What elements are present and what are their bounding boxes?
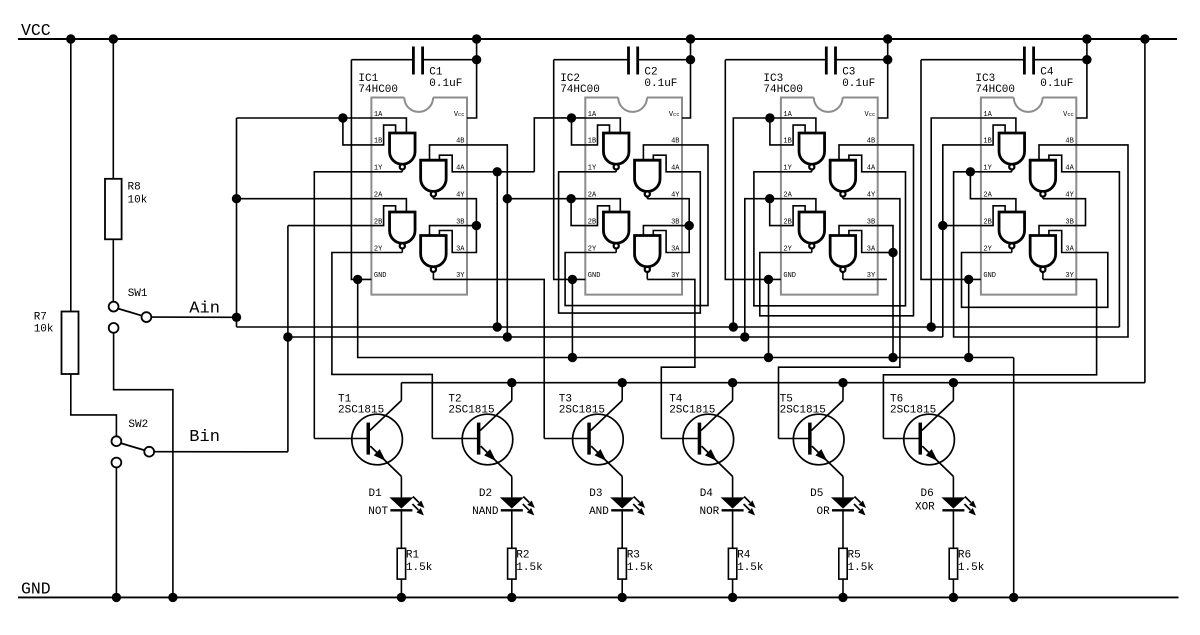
wire Ain riser to IC1 pin 2A (237, 198, 372, 200)
junction IC3(4) GND pin (964, 275, 973, 284)
junction IC2 1A/1B (567, 113, 576, 122)
pin labels IC2 left side 1A 1B 1Y 2A 2B 2Y GND (588, 111, 601, 280)
label IC2 74HC00 (560, 73, 600, 96)
svg-text:C4: C4 (1040, 67, 1054, 79)
wire IC3 1Y to IC3 pin 4A (under IC) (754, 172, 906, 306)
switch SW2 (112, 436, 155, 467)
junction IC3 GND pin (764, 275, 773, 284)
wire T2 base feed (432, 438, 478, 440)
svg-text:VCC: VCC (21, 21, 51, 40)
resistor R3 1.5k (618, 548, 626, 579)
LED D3 (610, 497, 645, 516)
wire IC3(4) pin 2B stub (943, 225, 981, 227)
svg-text:1.5k: 1.5k (627, 562, 654, 574)
svg-text:74HC00: 74HC00 (560, 84, 600, 96)
wire IC3 1A tie to 1B (770, 118, 781, 145)
NAND gate IC1 G3 (pins 3B,3A -> 3Y) (421, 226, 467, 280)
transistor T6 2SC1815 (904, 383, 955, 477)
svg-text:D3: D3 (589, 488, 602, 500)
junction IC3(4) 1Y/2A (966, 167, 975, 176)
svg-text:NOR: NOR (699, 506, 719, 518)
junction Ain bus/IC3 (729, 322, 738, 331)
wire SW1 lower throw to GND (114, 333, 173, 597)
wire R8 bottom to SW1 pivot (112, 239, 114, 301)
svg-text:D6: D6 (921, 488, 934, 500)
wire T5 emitter to LED D5 (842, 476, 844, 497)
pin labels IC1 left side 1A 1B 1Y 2A 2B 2Y GND (374, 111, 387, 280)
junction C3/Vcc pin (883, 55, 892, 64)
wire R2 to GND rail (511, 579, 513, 597)
wire VCC to R7 top (70, 39, 72, 312)
junction VCC/R7 (66, 34, 75, 43)
junction IC3(4) 1B/2B (938, 221, 947, 230)
label C4 0.1uF (1040, 67, 1073, 90)
wire R5 to GND rail (842, 579, 844, 597)
junction GND/R6 (949, 593, 958, 602)
transistor T2 2SC1815 (462, 383, 513, 477)
GND power rail (18, 596, 1179, 598)
junction GND/R1 (397, 593, 406, 602)
resistor R5 1.5k (839, 548, 847, 579)
IC IC3 74HC00 body (unit 3) (781, 98, 878, 295)
wire IC3 GND pin riser to GND bus (768, 279, 770, 357)
NAND gate IC2 G4 (pins 4B,4A -> 4Y) (635, 145, 682, 199)
resistor R4 1.5k (728, 548, 736, 579)
VCC power rail (18, 38, 1177, 40)
wire Ain to IC1 pin 1A (237, 117, 372, 119)
svg-text:Vcc: Vcc (865, 111, 876, 119)
junction IC2 4Y/3B (685, 221, 694, 230)
NAND gate IC3 G4 (pins 4B,4A -> 4Y) (830, 145, 878, 199)
svg-text:IC2: IC2 (560, 73, 580, 85)
svg-text:1.5k: 1.5k (406, 562, 433, 574)
svg-text:T6: T6 (890, 393, 903, 405)
svg-text:1.5k: 1.5k (737, 562, 764, 574)
wire VCC to C1/Vcc pin riser (467, 39, 477, 118)
junction GND bus/IC3 (764, 353, 773, 362)
svg-text:10k: 10k (128, 195, 148, 207)
wire IC3 3Y stub (878, 278, 887, 280)
wire T1 emitter to LED D1 (400, 476, 402, 497)
svg-text:Vcc: Vcc (1063, 111, 1074, 119)
svg-text:2SC1815: 2SC1815 (448, 405, 494, 417)
svg-text:T5: T5 (780, 393, 793, 405)
wire IC1 pin 4B to Bin bus (467, 145, 507, 337)
wire R6 to GND rail (952, 579, 954, 597)
wire IC3(4) GND pin riser to GND bus (968, 279, 970, 357)
resistor R6 1.5k (949, 548, 957, 579)
svg-text:R6: R6 (958, 550, 971, 562)
wire VCC to C4/Vcc pin riser (1076, 39, 1087, 118)
wire Bin branch to IC2 pin 2A (507, 198, 585, 200)
wire IC1 4Y to 3B and 3A (467, 199, 476, 253)
NAND gate IC3 G1 (pins 1A,1B -> 1Y) (781, 118, 825, 172)
svg-text:D2: D2 (479, 488, 492, 500)
svg-text:OR: OR (816, 506, 830, 518)
NAND gate IC2 G1 (pins 1A,1B -> 1Y) (585, 118, 629, 172)
wire IC2 3Y (NOR out) to T4 base (661, 279, 695, 438)
svg-text:NAND: NAND (472, 506, 499, 518)
svg-text:GND: GND (783, 272, 796, 280)
label T4 2SC1815 (669, 393, 715, 416)
wire LED D1 to R1 (400, 510, 402, 548)
wire C3 left plate to IC3 GND pin (725, 60, 781, 280)
junction collector bus/T2 (507, 378, 516, 387)
junction Ain bus/IC3(4) (927, 322, 936, 331)
resistor R2 1.5k (508, 548, 516, 579)
label IC1 74HC00 (358, 73, 398, 96)
svg-text:2SC1815: 2SC1815 (669, 405, 715, 417)
wire Bin bus end riser to IC3(4) pins 1B,2B (943, 145, 981, 337)
junction VCC/C4 (1082, 34, 1091, 43)
label IC3 74HC00 (763, 73, 803, 96)
svg-text:R5: R5 (848, 550, 861, 562)
wire IC3 pin 3A stub (878, 252, 893, 254)
svg-text:0.1uF: 0.1uF (842, 78, 875, 90)
svg-text:D4: D4 (700, 488, 714, 500)
label R3 1.5k (627, 550, 654, 575)
junction collector bus/T4 (728, 378, 737, 387)
wire R4 to GND rail (732, 579, 734, 597)
junction GND/R4 (728, 593, 737, 602)
wire IC2 2Y to IC2 pin 4B (under IC) (565, 145, 708, 306)
svg-text:10k: 10k (34, 324, 54, 336)
pin labels IC1 right side Vcc 4B 4A 4Y 3B 3A 3Y (454, 111, 465, 280)
wire T5 base feed (779, 438, 810, 440)
transistor T1 2SC1815 (352, 383, 403, 477)
junction IC1 4Y/3B (472, 221, 481, 230)
wire T1 base feed (314, 438, 368, 440)
svg-text:Vcc: Vcc (669, 111, 680, 119)
transistor T3 2SC1815 (573, 383, 624, 477)
svg-text:GND: GND (983, 272, 996, 280)
NAND gate IC3 G4 (pins 4B,4A -> 4Y) (1030, 145, 1076, 199)
junction GND/SW1 (168, 593, 177, 602)
wire IC2 2A tie to 2B (571, 199, 585, 226)
NAND gate IC3 G1 (pins 1A,1B -> 1Y) (981, 118, 1025, 172)
NAND gate IC3 G3 (pins 3B,3A -> 3Y) (1030, 226, 1076, 280)
junction IC2 2A/2B (566, 194, 575, 203)
svg-text:Ain: Ain (189, 300, 220, 319)
junction GND/R2 (507, 593, 516, 602)
label T5 2SC1815 (780, 393, 826, 416)
junction VCC/collector bus (1140, 34, 1149, 43)
pin labels IC3 left side 1A 1B 1Y 2A 2B 2Y GND (783, 111, 796, 280)
svg-text:NOT: NOT (368, 506, 388, 518)
svg-text:T4: T4 (669, 393, 683, 405)
junction IC1 GND pin (353, 275, 362, 284)
wire IC3(4) 1Y branch to 2A (970, 172, 981, 199)
IC IC2 74HC00 body (unit 2) (585, 98, 682, 295)
wire T6 emitter to LED D6 (952, 476, 954, 497)
LED D1 (389, 497, 424, 516)
wire IC3 4Y (OR out) to T5 base (779, 199, 900, 439)
wire LED D2 to R2 (511, 510, 513, 548)
svg-text:2SC1815: 2SC1815 (890, 405, 936, 417)
wire IC2 GND pin riser to GND bus (571, 279, 573, 357)
junction GND bus/IC3(4) (964, 353, 973, 362)
svg-text:T3: T3 (559, 393, 572, 405)
wire R1 to GND rail (400, 579, 402, 597)
junction Ain switch (232, 313, 241, 322)
label R6 1.5k (958, 550, 985, 575)
svg-text:R3: R3 (627, 550, 640, 562)
junction C4/Vcc pin (1082, 55, 1091, 64)
svg-text:AND: AND (589, 506, 609, 518)
label R1 1.5k (406, 550, 433, 575)
junction collector bus/T3 (618, 378, 627, 387)
label T3 2SC1815 (559, 393, 605, 416)
wire VCC to C2/Vcc pin riser (682, 39, 691, 118)
capacitor C2 0.1uF (554, 47, 691, 75)
wire C4 left plate to IC3 GND pin (921, 60, 981, 280)
label IC3 74HC00 (975, 73, 1015, 96)
junction Bin/IC2 2A (503, 194, 512, 203)
junction Ain riser/IC1 2A (232, 194, 241, 203)
wire T4 emitter to LED D4 (732, 476, 734, 497)
transistor T4 2SC1815 (683, 383, 734, 477)
wire Bin bus (horizontal) (288, 336, 943, 338)
junction collector bus/T6 (949, 378, 958, 387)
transistor T5 2SC1815 (793, 383, 844, 477)
wire IC3(4) 4Y to pin 3B (1076, 199, 1085, 226)
svg-text:R1: R1 (406, 550, 420, 562)
svg-text:D5: D5 (810, 488, 823, 500)
wire LED D4 to R4 (732, 510, 734, 548)
wire IC3 pins 3B,3A tied to GND bus (878, 226, 893, 358)
pin labels IC3 left side 1A 1B 1Y 2A 2B 2Y GND (983, 111, 996, 280)
node Bin riser to IC1 pin 2B (287, 226, 289, 452)
NAND gate IC1 G4 (pins 4B,4A -> 4Y) (421, 145, 467, 199)
svg-text:1.5k: 1.5k (848, 562, 875, 574)
wire IC GND bus (horizontal) (358, 279, 1014, 357)
junction GND/SW2 (112, 593, 121, 602)
wire Ain bus riser to IC3 pin 1A (733, 118, 781, 327)
svg-text:C1: C1 (429, 67, 443, 79)
label T2 2SC1815 (448, 393, 494, 416)
junction GND/R5 (838, 593, 847, 602)
wire T4 base feed (661, 438, 699, 440)
wire Bin bus riser to IC3 pin 2A (745, 199, 781, 337)
label C2 0.1uF (644, 67, 677, 90)
svg-text:GND: GND (21, 580, 51, 599)
junction IC3 2A/2B (765, 194, 774, 203)
junction VCC/C2 (686, 34, 695, 43)
junction C1/Vcc pin (472, 55, 481, 64)
svg-text:T2: T2 (448, 393, 461, 405)
wire Ain bus (horizontal) (237, 326, 1120, 328)
NAND gate IC2 G3 (pins 3B,3A -> 3Y) (635, 226, 682, 280)
junction VCC/C3 (883, 34, 892, 43)
wire Ain bus riser to IC3(4) pin 1A (931, 118, 981, 327)
label C1 0.1uF (429, 67, 462, 90)
node Ain wire (152, 316, 237, 318)
svg-text:D1: D1 (369, 488, 383, 500)
wire IC1 1Y (NOT out) to T1 base (314, 172, 371, 439)
svg-text:R8: R8 (128, 182, 141, 194)
svg-text:74HC00: 74HC00 (975, 84, 1015, 96)
label T6 2SC1815 (890, 393, 936, 416)
svg-text:0.1uF: 0.1uF (429, 78, 462, 90)
wire C1 left plate to IC1 GND pin (351, 60, 371, 280)
junction IC1 1A/1B (338, 113, 347, 122)
wire IC1 pin 3B stub (467, 225, 476, 227)
svg-text:Vcc: Vcc (454, 111, 465, 119)
svg-text:T1: T1 (338, 393, 352, 405)
svg-text:0.1uF: 0.1uF (1040, 78, 1073, 90)
junction Bin bus/IC3 (740, 332, 749, 341)
wire IC2 pin 3B stub (682, 225, 689, 227)
wire IC1 1A tie to 1B (343, 118, 372, 145)
NAND gate IC1 G1 (pins 1A,1B -> 1Y) (371, 118, 415, 172)
svg-text:2SC1815: 2SC1815 (780, 405, 826, 417)
junction GND/GND bus (1009, 593, 1018, 602)
svg-text:GND: GND (588, 272, 601, 280)
NAND gate IC3 G3 (pins 3B,3A -> 3Y) (830, 226, 878, 280)
wire C2 left plate to IC2 GND pin (554, 60, 586, 280)
wire IC1 3Y (AND out) to T3 base (467, 279, 544, 438)
junction GND bus/IC2 (568, 353, 577, 362)
NAND gate IC3 G2 (pins 2A,2B -> 2Y) (781, 199, 825, 253)
wire T2 emitter to LED D2 (511, 476, 513, 497)
wire collector VCC bus (horizontal) (401, 382, 1145, 384)
pin labels IC3 right side Vcc 4B 4A 4Y 3B 3A 3Y (865, 111, 876, 280)
NAND gate IC3 G2 (pins 2A,2B -> 2Y) (981, 199, 1025, 253)
pin labels IC2 right side Vcc 4B 4A 4Y 3B 3A 3Y (669, 111, 680, 280)
LED D4 (721, 497, 756, 516)
svg-text:1.5k: 1.5k (958, 562, 985, 574)
svg-text:IC3: IC3 (975, 73, 995, 85)
pin labels IC3 right side Vcc 4B 4A 4Y 3B 3A 3Y (1063, 111, 1074, 280)
svg-text:R4: R4 (737, 550, 751, 562)
svg-text:XOR: XOR (915, 501, 935, 513)
wire IC2 1A tie to 1B (572, 118, 586, 145)
wire LED D5 to R5 (842, 510, 844, 548)
svg-text:R7: R7 (34, 311, 47, 323)
label T1 2SC1815 (338, 393, 384, 416)
wire Ain bus riser to IC1 4A (496, 172, 498, 327)
junction IC2 GND pin (568, 275, 577, 284)
capacitor C4 0.1uF (921, 47, 1087, 75)
wire VCC right riser to collector bus (1144, 39, 1146, 383)
wire IC2 4Y to 3B and 3A (682, 199, 689, 253)
svg-text:IC3: IC3 (763, 73, 783, 85)
svg-text:R2: R2 (516, 550, 529, 562)
svg-text:SW1: SW1 (128, 288, 148, 300)
label R8 10k (128, 182, 148, 207)
svg-text:74HC00: 74HC00 (358, 84, 398, 96)
wire Bin riser to IC1 pin 2B (288, 225, 372, 227)
NAND gate IC2 G2 (pins 2A,2B -> 2Y) (585, 199, 629, 253)
wire IC1 2Y (NAND out) to T2 base (332, 253, 432, 439)
wire IC3(4) 2Y to pin 3A (under right) (962, 253, 1108, 308)
junction IC1 4A/Ain (493, 167, 502, 176)
svg-text:GND: GND (374, 272, 387, 280)
wire LED D3 to R3 (621, 510, 623, 548)
wire IC1 4A over to IC2 pin 1A (534, 118, 585, 172)
NAND gate IC1 G2 (pins 2A,2B -> 2Y) (371, 199, 415, 253)
wire SW2 lower throw to GND (115, 468, 117, 598)
svg-text:IC1: IC1 (358, 73, 378, 85)
wire IC2 1Y to IC2 pin 4A (under IC) (559, 172, 701, 313)
svg-text:2SC1815: 2SC1815 (338, 405, 384, 417)
resistor R1 1.5k (397, 548, 405, 579)
svg-text:C2: C2 (644, 67, 657, 79)
capacitor C3 0.1uF (725, 47, 887, 75)
junction GND bus/IC3 3B (888, 353, 897, 362)
wire T6 base feed (883, 438, 920, 440)
junction IC3 1A/1B (765, 113, 774, 122)
resistor R8 (105, 179, 122, 240)
wire IC3(4) 1Y node n (954, 145, 1128, 337)
wire IC1 pin 4A (Ain) (467, 171, 534, 173)
wire VCC to C3/Vcc pin riser (878, 39, 888, 118)
svg-text:74HC00: 74HC00 (763, 84, 803, 96)
LED D6 (941, 497, 976, 516)
wire IC3 2Y to IC3 pin 4B (under IC) (760, 145, 914, 316)
junction C2/Vcc pin (686, 55, 695, 64)
svg-text:C3: C3 (842, 67, 855, 79)
LED D5 (831, 497, 866, 516)
svg-text:0.1uF: 0.1uF (644, 78, 677, 90)
label R4 1.5k (737, 550, 764, 575)
svg-text:2SC1815: 2SC1815 (559, 405, 605, 417)
wire R3 to GND rail (621, 579, 623, 597)
switch SW1 (109, 302, 152, 333)
junction GND/R3 (618, 593, 627, 602)
svg-text:SW2: SW2 (128, 419, 148, 431)
resistor R7 (62, 312, 79, 375)
junction IC3 3A/GND (888, 248, 897, 257)
junction collector bus/T5 (838, 378, 847, 387)
svg-text:Bin: Bin (189, 428, 220, 447)
junction VCC/C1 (472, 34, 481, 43)
wire LED D6 to R6 (952, 510, 954, 548)
junction VCC/R8 (109, 34, 118, 43)
wire R7 bottom to SW2 pivot (71, 374, 117, 436)
wire VCC to R8 top (112, 39, 114, 179)
node Bin wire (154, 451, 288, 453)
label R5 1.5k (848, 550, 875, 575)
label C3 0.1uF (842, 67, 875, 90)
wire GND bus down to GND rail (1013, 358, 1015, 598)
wire IC3(4) 3Y (XOR out) to T6 base (883, 279, 1096, 438)
label R2 1.5k (516, 550, 543, 575)
wire IC3 2A tie to 2B (770, 199, 781, 226)
LED D2 (500, 497, 535, 516)
IC IC1 74HC00 body (unit 1) (371, 98, 467, 295)
capacitor C1 0.1uF (351, 47, 476, 75)
label R7 10k (34, 311, 54, 335)
junction Ain bus/IC1 4A (493, 322, 502, 331)
IC IC3 74HC00 body (unit 4) (981, 98, 1076, 295)
node Ain riser to IC1 pin 1A and Ain bus (236, 118, 238, 327)
junction Bin bus/IC1 4B (503, 332, 512, 341)
wire Ain bus right end up to IC3(4) pin 4A (1076, 172, 1119, 327)
svg-text:1.5k: 1.5k (516, 562, 543, 574)
wire T3 emitter to LED D3 (621, 476, 623, 497)
wire T3 base feed (544, 438, 589, 440)
junction Bin bus start (283, 332, 292, 341)
